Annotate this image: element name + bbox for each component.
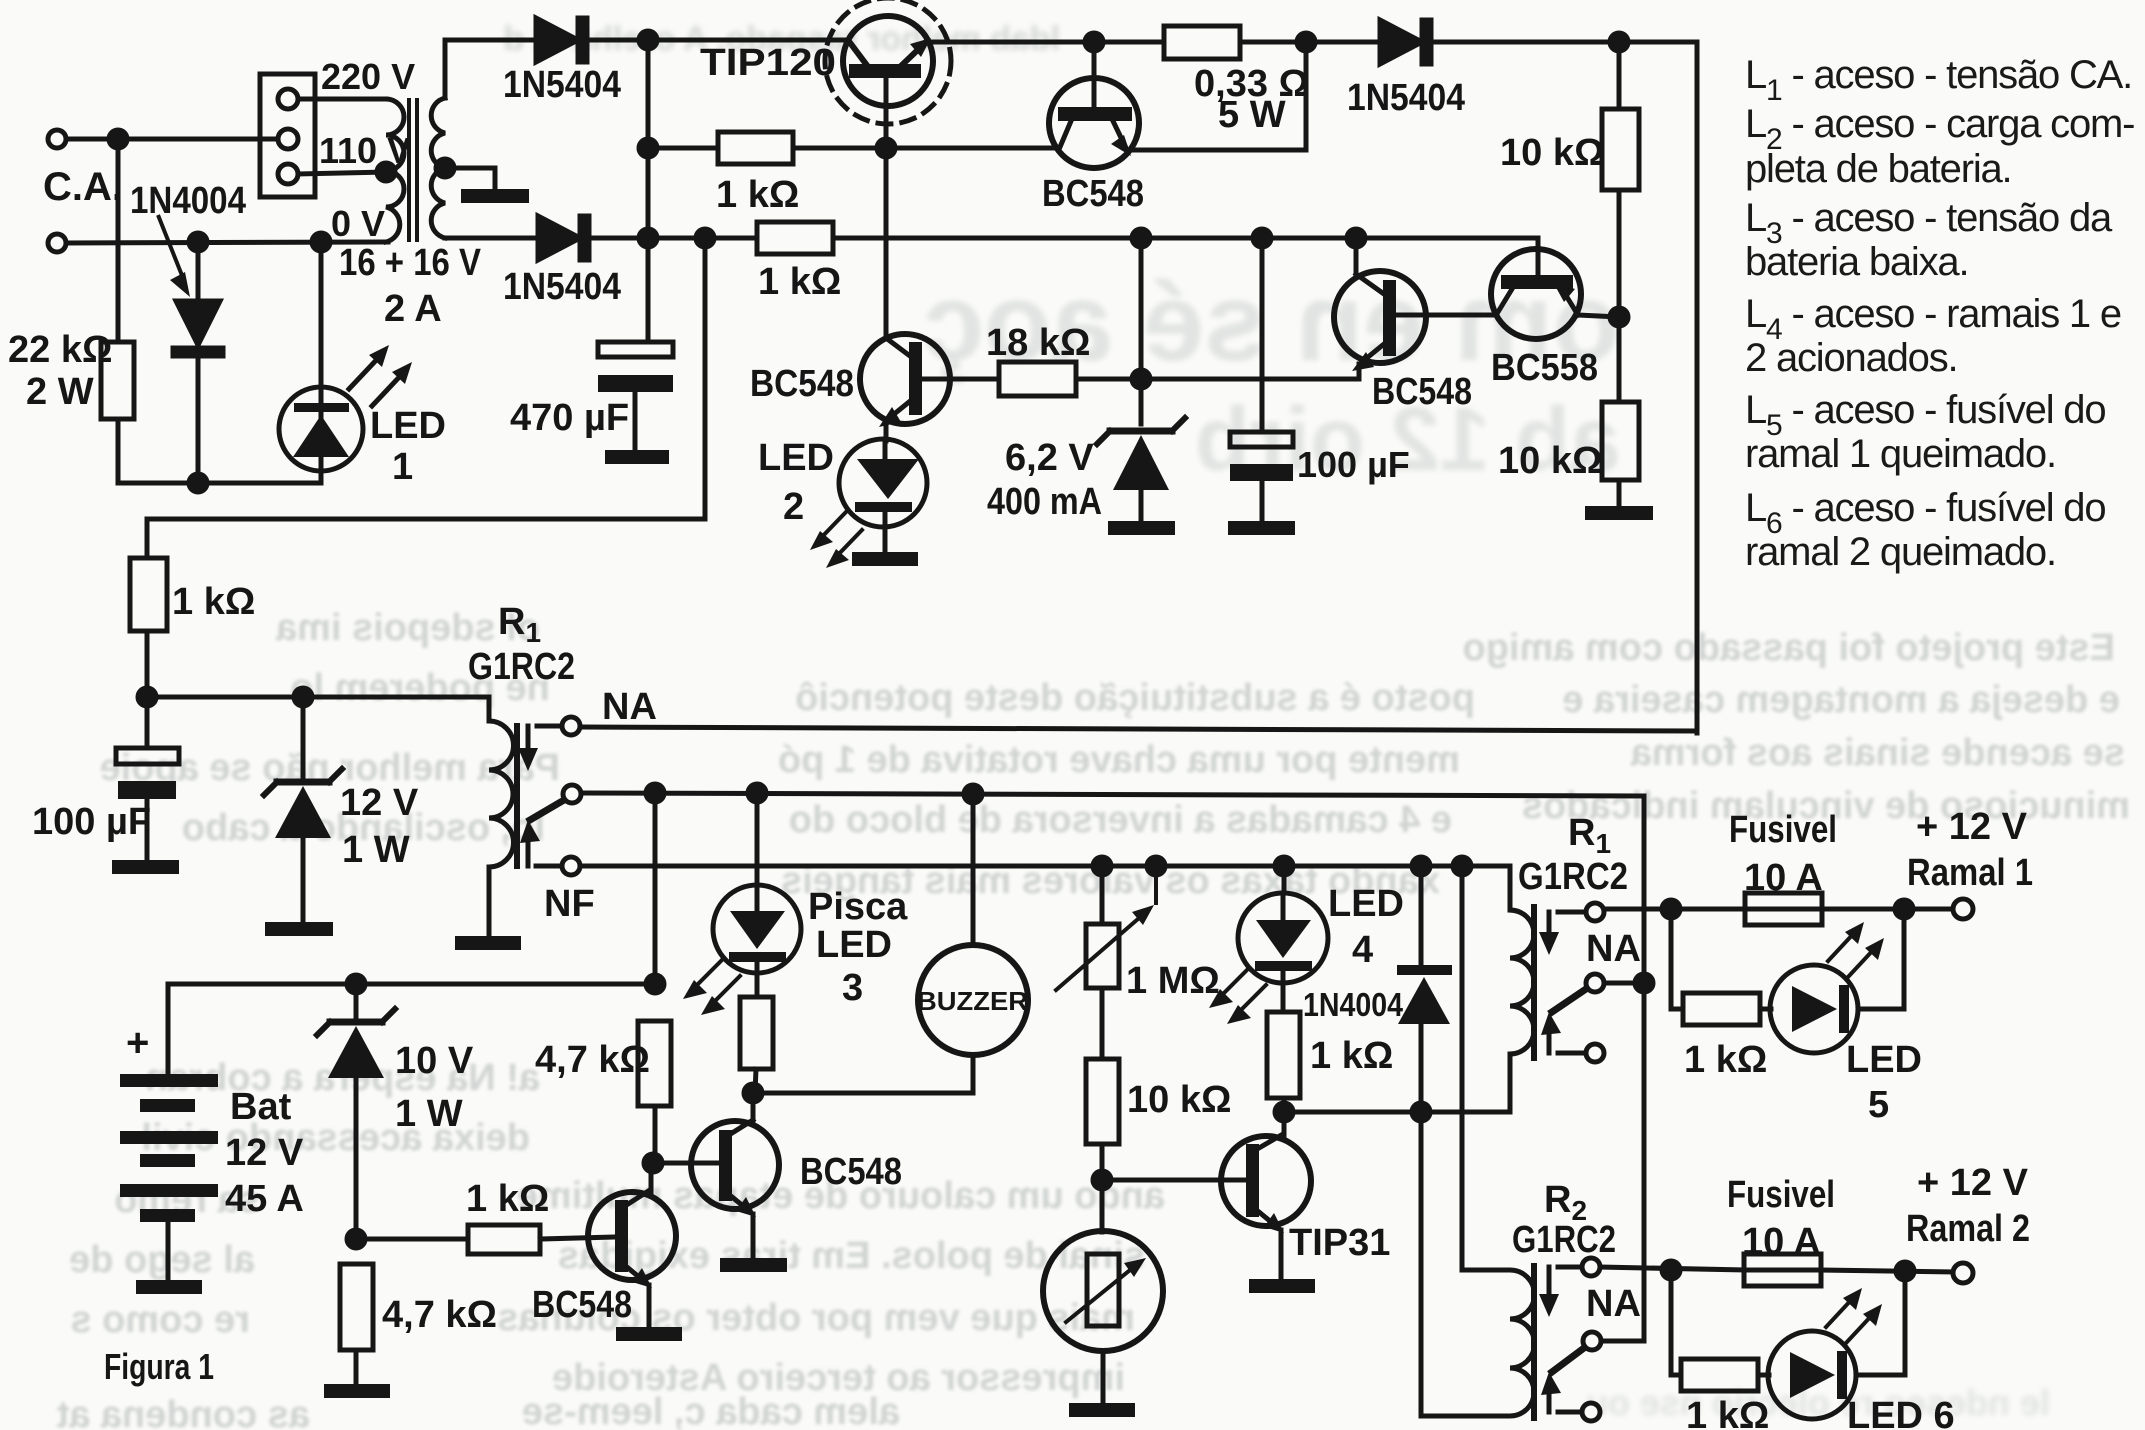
svg-text:NA: NA bbox=[1586, 1283, 1641, 1325]
svg-text:10 A: 10 A bbox=[1744, 857, 1823, 899]
node Q1 base top bbox=[1085, 33, 1103, 51]
arrows LED3 light bbox=[683, 960, 740, 1015]
diode 1N5404 lower bbox=[538, 216, 589, 260]
capacitor 100uF ref bbox=[1230, 238, 1293, 521]
node buzzer join bbox=[744, 1084, 762, 1102]
svg-text:45 A: 45 A bbox=[225, 1178, 304, 1220]
svg-text:1N5404: 1N5404 bbox=[503, 266, 621, 308]
node pisca driver base bbox=[644, 1154, 662, 1172]
svg-text:5: 5 bbox=[1868, 1084, 1889, 1126]
wire NF rail bbox=[580, 866, 1510, 910]
svg-text:1 kΩ: 1 kΩ bbox=[1684, 1039, 1767, 1081]
wire relay supply rail bbox=[147, 695, 489, 700]
wire centre tap bbox=[445, 168, 495, 189]
arrows LED1 light bbox=[349, 345, 412, 406]
wire top rail left bbox=[648, 38, 848, 43]
ground relay coil bbox=[455, 936, 521, 950]
wire pisca emitter bbox=[751, 1214, 756, 1258]
wire TIP31 collector bbox=[1282, 1112, 1287, 1136]
resistor 4k7 right bbox=[638, 1021, 671, 1106]
arrows LED6 light bbox=[1826, 1288, 1882, 1343]
node ref join bbox=[1132, 370, 1150, 388]
arrow 1N4004 pointer bbox=[158, 215, 190, 297]
svg-text:LED: LED bbox=[370, 405, 446, 447]
node emitter sense bbox=[1297, 33, 1315, 51]
zener 6.2V bbox=[1097, 418, 1185, 521]
wire NF stub bbox=[536, 864, 562, 869]
ground 100uF ref bbox=[1228, 521, 1295, 535]
resistor 1k charge bbox=[757, 222, 833, 254]
wire 10k upper lead bbox=[1617, 42, 1622, 109]
wire relay2 coil top feed bbox=[1462, 866, 1507, 1270]
node low-batt divider bbox=[347, 1230, 365, 1248]
wire fuse1 out bbox=[1822, 907, 1953, 912]
svg-text:G1RC2: G1RC2 bbox=[1512, 1219, 1616, 1261]
wire LED3 top bbox=[755, 793, 760, 885]
svg-text:2 A: 2 A bbox=[384, 288, 442, 330]
ground TIP31 bbox=[1249, 1279, 1315, 1293]
wire neutral rail bbox=[66, 242, 388, 243]
ground zener bbox=[1108, 521, 1175, 535]
node comparator collector bbox=[1347, 229, 1365, 247]
contact NF relay1 bbox=[562, 857, 580, 875]
ground 470uF bbox=[605, 450, 669, 464]
svg-text:LED 6: LED 6 bbox=[1847, 1395, 1955, 1430]
svg-text:3: 3 bbox=[842, 967, 863, 1009]
wire divider to 1k bbox=[356, 1237, 468, 1242]
wire LED6 branch bbox=[1671, 1270, 1681, 1375]
wire BC558 emitter out bbox=[1578, 315, 1619, 317]
svg-text:se acende sinais aos forma: se acende sinais aos forma bbox=[1630, 732, 2125, 774]
svg-text:Ramal 1: Ramal 1 bbox=[1907, 852, 2033, 894]
arrows LED4 light bbox=[1209, 969, 1266, 1024]
node LED5 right bbox=[1895, 900, 1913, 918]
node bus wire2 bbox=[639, 229, 657, 247]
arrows LED5 light bbox=[1828, 922, 1884, 977]
svg-text:Fusivel: Fusivel bbox=[1727, 1174, 1835, 1216]
wire NA rail to top bbox=[580, 727, 1697, 731]
wire rectifier bus down bbox=[646, 40, 651, 342]
svg-text:Ramal 2: Ramal 2 bbox=[1906, 1208, 2030, 1250]
wire NA2 stub bbox=[1558, 910, 1586, 915]
node live junction bbox=[109, 130, 127, 148]
svg-text:e 4 camadas a inversora de blo: e 4 camadas a inversora de bloco do bbox=[789, 799, 1452, 841]
diode 1N5404 output bbox=[1380, 20, 1431, 64]
wire Q1 base to driver bbox=[884, 148, 889, 338]
capacitor 470uF bbox=[598, 342, 673, 450]
svg-text:al sego de: al sego de bbox=[69, 1239, 255, 1281]
wire lowbatt collector bbox=[649, 1172, 654, 1192]
wire 18k to ref bbox=[1076, 377, 1359, 382]
contact common relay3 bbox=[1583, 1332, 1601, 1350]
voltage selector block bbox=[260, 74, 315, 197]
node divider mid bbox=[1610, 308, 1628, 326]
wire 1N4004 top bbox=[196, 242, 201, 300]
transistor BC548 pisca bbox=[691, 1120, 779, 1217]
wire secondary top lead bbox=[445, 40, 536, 98]
resistor 1M timer bbox=[1086, 866, 1119, 988]
ghost headline bleed bbox=[503, 20, 2050, 1423]
svg-text:Fusivel: Fusivel bbox=[1729, 809, 1837, 851]
svg-text:110 V: 110 V bbox=[319, 130, 411, 171]
wire live to 22k bbox=[116, 139, 121, 342]
zener 10V bbox=[317, 984, 395, 1239]
svg-text:+ 12 V: + 12 V bbox=[1916, 806, 2028, 848]
relay RL1 coil bbox=[489, 697, 514, 936]
relay RL3 core bbox=[1531, 1266, 1537, 1418]
ground pisca emitter bbox=[720, 1258, 787, 1272]
svg-text:Este projeto foi passado com a: Este projeto foi passado com amigo bbox=[1463, 627, 2115, 669]
contact aux relay3 bbox=[1582, 1403, 1600, 1421]
wire LED5 up bbox=[1902, 909, 1907, 1009]
wire limiter emitter bbox=[1128, 42, 1306, 150]
svg-text:G1RC2: G1RC2 bbox=[1518, 856, 1628, 898]
terminal ramal2 bbox=[1953, 1263, 1973, 1283]
diode 1N4004 bbox=[173, 301, 223, 356]
resistor 10k lower bbox=[1602, 402, 1639, 480]
buzzer BZ1 bbox=[918, 794, 1028, 1055]
relay RL2 armature bbox=[1539, 912, 1586, 1053]
wire D2 to node bbox=[589, 236, 648, 241]
svg-text:10 V: 10 V bbox=[395, 1040, 474, 1082]
wire top rail right bbox=[1431, 42, 1697, 733]
svg-text:12 V: 12 V bbox=[225, 1132, 304, 1174]
node 4k7 right tap bbox=[646, 975, 664, 993]
legend lamp functions bbox=[1745, 53, 2134, 574]
transistor TIP31 bbox=[1221, 1134, 1311, 1233]
svg-text:6,2 V: 6,2 V bbox=[1005, 437, 1094, 479]
terminal ramal1 bbox=[1953, 899, 1973, 919]
svg-text:4,7 kΩ: 4,7 kΩ bbox=[535, 1039, 650, 1081]
diode 1N4004 relay bbox=[1397, 866, 1452, 1112]
wire charge rail bbox=[648, 236, 757, 241]
svg-text:BC548: BC548 bbox=[1372, 371, 1472, 413]
svg-text:4: 4 bbox=[1352, 929, 1373, 971]
wire node to base bbox=[653, 1161, 719, 1166]
svg-text:10 A: 10 A bbox=[1742, 1221, 1821, 1263]
relay RL2 core bbox=[1531, 907, 1537, 1058]
ghost print-through text bbox=[56, 607, 2130, 1430]
node neutral D junction bbox=[189, 233, 207, 251]
selector pin common bbox=[278, 129, 298, 149]
svg-text:bateria baixa.: bateria baixa. bbox=[1745, 240, 1968, 284]
wire common3 to bus bbox=[1601, 1339, 1644, 1344]
trimpot ajuste bbox=[1043, 1231, 1163, 1403]
wire zener top bbox=[1139, 238, 1144, 424]
svg-text:2 acionados.: 2 acionados. bbox=[1745, 336, 1957, 380]
transformer T1 secondary bbox=[431, 98, 445, 238]
node common2 bus bbox=[1635, 974, 1653, 992]
svg-text:NF: NF bbox=[544, 883, 595, 925]
node relay2 coil tap bbox=[1453, 857, 1471, 875]
svg-text:5 W: 5 W bbox=[1218, 94, 1286, 136]
svg-text:1 W: 1 W bbox=[395, 1093, 463, 1135]
relay RL3 armature bbox=[1539, 1267, 1584, 1412]
wire relay2 bottom bus bbox=[1282, 1110, 1510, 1115]
wire after 0.33 bbox=[1240, 40, 1380, 45]
wire 110V tap bbox=[298, 172, 386, 174]
node 1N4004 tap bbox=[1412, 857, 1430, 875]
wire 1k LED4 low bbox=[1282, 1098, 1287, 1112]
svg-text:LED: LED bbox=[816, 924, 892, 966]
svg-text:1 kΩ: 1 kΩ bbox=[716, 174, 799, 216]
svg-text:mente por uma chave rotativa d: mente por uma chave rotativa de 1 pó bbox=[778, 739, 1460, 781]
wire TIP31 emitter bbox=[1279, 1230, 1284, 1279]
wire battery minus bbox=[166, 1222, 171, 1280]
selector pin 220V bbox=[278, 89, 298, 109]
wire secondary bottom lead bbox=[445, 236, 538, 241]
wire charge rail right bbox=[833, 238, 1538, 252]
wire aux3 stub bbox=[1558, 1410, 1582, 1415]
wire to relay node bbox=[145, 631, 150, 697]
svg-text:400 mA: 400 mA bbox=[987, 481, 1102, 523]
ground lowbatt emitter bbox=[616, 1327, 682, 1341]
svg-text:e deseja a montagem caseira e: e deseja a montagem caseira e bbox=[1562, 679, 2120, 721]
ground LED2 bbox=[852, 552, 918, 566]
node LED6 right bbox=[1896, 1262, 1914, 1280]
wire common rail bbox=[581, 793, 1644, 796]
wire base drive bbox=[648, 146, 718, 151]
contact common relay2 bbox=[1586, 974, 1604, 992]
wire 22k bottom bbox=[116, 419, 121, 483]
ground 4k7 left bbox=[324, 1384, 390, 1398]
svg-text:1N5404: 1N5404 bbox=[1347, 77, 1465, 119]
node rectifier plus bbox=[639, 31, 657, 49]
svg-text:12 V: 12 V bbox=[340, 782, 419, 824]
LED LED5 bbox=[1760, 965, 1904, 1053]
capacitor 100uF relay bbox=[116, 697, 179, 860]
terminal input live bbox=[48, 130, 66, 148]
wire LED4 branch bbox=[1282, 866, 1287, 893]
svg-text:C.A.: C.A. bbox=[43, 165, 123, 209]
svg-text:1N4004: 1N4004 bbox=[1303, 986, 1404, 1023]
wire 4k7 to node bbox=[653, 1106, 658, 1163]
svg-text:+: + bbox=[126, 1021, 149, 1065]
wire buzzer lead low bbox=[971, 1055, 976, 1093]
resistor 1k lowbatt bbox=[468, 1225, 540, 1254]
svg-text:100 µF: 100 µF bbox=[32, 801, 151, 843]
node bottom bus bbox=[189, 474, 207, 492]
selector pin 110V bbox=[278, 164, 298, 184]
svg-text:1 kΩ: 1 kΩ bbox=[1686, 1395, 1769, 1430]
svg-text:BC548: BC548 bbox=[750, 363, 854, 405]
svg-text:0 V: 0 V bbox=[331, 203, 385, 244]
svg-text:1 kΩ: 1 kΩ bbox=[1310, 1035, 1393, 1077]
node buzzer tee bbox=[964, 785, 982, 803]
svg-text:2: 2 bbox=[783, 486, 804, 528]
wire common2 to bus bbox=[1604, 981, 1644, 986]
svg-text:BC558: BC558 bbox=[1491, 347, 1598, 389]
ground trimpot bbox=[1069, 1403, 1135, 1417]
svg-text:BC548: BC548 bbox=[800, 1151, 902, 1193]
resistor 4k7 left bbox=[340, 1264, 373, 1350]
node 110V tap bbox=[377, 163, 395, 181]
ground centre tap bbox=[461, 189, 529, 203]
svg-text:10 kΩ: 10 kΩ bbox=[1127, 1079, 1231, 1121]
node 10k top feed bbox=[1610, 33, 1628, 51]
svg-text:100 µF: 100 µF bbox=[1297, 444, 1410, 485]
resistor 10k timer bbox=[1086, 1059, 1119, 1144]
resistor 1k relay feed bbox=[130, 558, 167, 631]
wire NA3 stub bbox=[1558, 1265, 1582, 1270]
wire aux2 stub bbox=[1558, 1051, 1586, 1056]
battery Bat 12V bbox=[120, 1074, 218, 1222]
transistor TIP120 bbox=[825, 0, 951, 148]
wire 10k mid bbox=[1617, 190, 1622, 402]
resistor 1k pisca bbox=[740, 997, 773, 1069]
wire 1k to Q1 base bbox=[793, 146, 1058, 151]
svg-text:alem cada c, leem-se: alem cada c, leem-se bbox=[522, 1391, 900, 1430]
svg-text:1 MΩ: 1 MΩ bbox=[1126, 960, 1220, 1002]
wire buzzer bottom bbox=[753, 1091, 973, 1096]
svg-text:ramal 2 queimado.: ramal 2 queimado. bbox=[1745, 530, 2056, 574]
wire top rail mid bbox=[928, 40, 1164, 45]
wire 10k to node bbox=[1100, 1144, 1105, 1232]
svg-text:1: 1 bbox=[392, 446, 413, 488]
relay RL1 armature bbox=[518, 726, 564, 866]
transistor BC548 comparator bbox=[1334, 238, 1497, 371]
resistor 1k base bbox=[718, 132, 793, 164]
transformer T1 core bbox=[409, 100, 417, 240]
resistor 0.33 ohm bbox=[1164, 26, 1240, 59]
wire fuse2 out bbox=[1821, 1270, 1953, 1272]
relay RL3 coil bbox=[1510, 1270, 1534, 1416]
svg-text:2 W: 2 W bbox=[26, 371, 94, 413]
svg-text:1 kΩ: 1 kΩ bbox=[172, 581, 255, 623]
ground 12V zener bbox=[265, 922, 333, 936]
wire base TIP31 bbox=[1102, 1178, 1246, 1183]
transistor BC548 lowbatt bbox=[588, 1190, 676, 1288]
arrow 1M wiper bbox=[1056, 866, 1156, 990]
transformer T1 primary bbox=[386, 99, 404, 242]
svg-text:BUZZER: BUZZER bbox=[917, 986, 1028, 1016]
wire common to battery rail bbox=[653, 793, 658, 984]
wire 4k7 left low bbox=[354, 1350, 359, 1384]
transistor BC548 driver bbox=[860, 334, 999, 427]
resistor 1k LED5 bbox=[1683, 993, 1760, 1025]
wire lowbatt emitter bbox=[647, 1285, 652, 1327]
node common battery tee bbox=[646, 784, 664, 802]
svg-text:22 kΩ: 22 kΩ bbox=[8, 329, 112, 371]
wire charge to relay bus bbox=[147, 238, 705, 558]
resistor 18k bbox=[999, 362, 1076, 396]
svg-text:18 kΩ: 18 kΩ bbox=[986, 322, 1090, 364]
wire pisca collector node bbox=[751, 1093, 756, 1120]
ground battery bbox=[136, 1280, 202, 1294]
wire battery plus rail bbox=[168, 984, 655, 1074]
wire LED5 branch bbox=[1671, 909, 1683, 1009]
svg-text:as condena at: as condena at bbox=[56, 1394, 310, 1430]
fuse F1 10A bbox=[1745, 893, 1822, 925]
svg-text:470 µF: 470 µF bbox=[510, 397, 629, 439]
node cap feed bbox=[1253, 229, 1271, 247]
svg-text:TIP31: TIP31 bbox=[1289, 1222, 1390, 1264]
node 1M tap bbox=[1093, 857, 1111, 875]
arrows LED2 light bbox=[810, 512, 862, 568]
diode 1N5404 top bbox=[536, 18, 587, 62]
LED LED2 bbox=[839, 439, 927, 552]
svg-text:220 V: 220 V bbox=[321, 56, 415, 97]
contact common relay1 bbox=[563, 785, 581, 803]
svg-text:ramal 1 queimado.: ramal 1 queimado. bbox=[1745, 432, 2056, 476]
LED LED4 bbox=[1238, 893, 1328, 1012]
svg-text:BC548: BC548 bbox=[532, 1284, 632, 1326]
wire fuse2 rail bbox=[1600, 1267, 1744, 1270]
node LED4 tap bbox=[1275, 857, 1293, 875]
svg-text:LED: LED bbox=[758, 437, 834, 479]
svg-text:NA: NA bbox=[602, 686, 657, 728]
wire 1M to 10k bbox=[1100, 988, 1105, 1059]
LED LED6 bbox=[1758, 1331, 1905, 1419]
node diode bus bbox=[1412, 1103, 1430, 1121]
wire 220V tap bbox=[298, 97, 386, 102]
svg-text:NA: NA bbox=[1586, 928, 1641, 970]
svg-text:posto é a substituição deste p: posto é a substituição deste potenciô bbox=[795, 677, 1475, 719]
resistor 1k LED4 bbox=[1267, 1012, 1300, 1098]
svg-text:10 kΩ: 10 kΩ bbox=[1500, 132, 1604, 174]
svg-text:1 W: 1 W bbox=[342, 829, 410, 871]
node secondary centre tap bbox=[436, 159, 454, 177]
node wiper tap bbox=[1147, 857, 1165, 875]
contact aux relay2 bbox=[1586, 1044, 1604, 1062]
contact NA relay1 bbox=[562, 717, 580, 735]
wire NA stub bbox=[537, 724, 562, 729]
wire 1k to Q base bbox=[540, 1237, 617, 1239]
svg-text:Figura 1: Figura 1 bbox=[104, 1346, 214, 1387]
node zener feed bbox=[1132, 229, 1150, 247]
resistor 22k bbox=[101, 342, 134, 419]
wire 1N4004 bottom bbox=[196, 356, 201, 483]
node zener10 tap bbox=[347, 975, 365, 993]
svg-text:1N5404: 1N5404 bbox=[503, 64, 621, 106]
svg-text:+ 12 V: + 12 V bbox=[1917, 1162, 2029, 1204]
node zener12 tap bbox=[294, 688, 312, 706]
wire comparator emitter bbox=[1357, 364, 1362, 379]
wire LED6 up bbox=[1903, 1271, 1908, 1375]
node TIP31 bus bbox=[1275, 1103, 1293, 1121]
node LED6 left bbox=[1662, 1261, 1680, 1279]
node TIP120 base bbox=[877, 139, 895, 157]
svg-text:G1RC2: G1RC2 bbox=[468, 646, 575, 688]
wire live input bbox=[66, 137, 278, 142]
node relay supply bbox=[138, 688, 156, 706]
svg-text:10 kΩ: 10 kΩ bbox=[1498, 440, 1602, 482]
fuse F2 10A bbox=[1744, 1254, 1821, 1286]
svg-text:1 kΩ: 1 kΩ bbox=[758, 261, 841, 303]
svg-text:re como s: re como s bbox=[70, 1299, 250, 1341]
svg-text:LED: LED bbox=[1328, 883, 1404, 925]
wire diode bus to R2 coil bbox=[1421, 1112, 1507, 1416]
wire 1k pisca low bbox=[755, 1069, 756, 1093]
contact NA relay3 bbox=[1582, 1258, 1600, 1276]
node charge tee bbox=[696, 229, 714, 247]
terminal input neutral bbox=[48, 234, 66, 252]
node pisca tee bbox=[748, 784, 766, 802]
wire LED1 bottom bus bbox=[118, 481, 321, 486]
svg-text:16 + 16 V: 16 + 16 V bbox=[339, 242, 482, 284]
svg-text:Bat: Bat bbox=[230, 1086, 292, 1128]
resistor 1k LED6 bbox=[1681, 1359, 1758, 1391]
svg-text:TIP120: TIP120 bbox=[700, 42, 836, 84]
svg-text:1 kΩ: 1 kΩ bbox=[466, 1178, 549, 1220]
svg-text:LED: LED bbox=[1846, 1039, 1922, 1081]
LED LED3 pisca bbox=[713, 885, 801, 997]
relay RL2 coil bbox=[1510, 910, 1534, 1112]
svg-text:Pisca: Pisca bbox=[808, 886, 908, 928]
LED LED1 bbox=[279, 387, 363, 471]
svg-text:1N4004: 1N4004 bbox=[130, 180, 246, 222]
node rail base tap bbox=[639, 139, 657, 157]
